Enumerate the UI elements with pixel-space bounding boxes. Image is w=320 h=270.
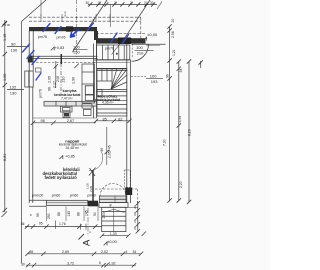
axis dash-dot x76.5 (76, 0, 78, 57)
svg-text:95: 95 (39, 222, 43, 226)
svg-text:20: 20 (133, 205, 137, 209)
flag ±0,00 bottom (104, 242, 107, 245)
south door steps (100, 196, 127, 199)
svg-text:5,59: 5,59 (178, 116, 182, 123)
svg-text:34: 34 (133, 250, 137, 254)
svg-text:20: 20 (133, 226, 137, 230)
dashed overhang near stair (95, 188, 137, 190)
dashed overhang vertical right (140, 17, 142, 38)
svg-text:210: 210 (137, 50, 144, 55)
terrain vertical line (21, 22, 23, 264)
svg-text:30: 30 (21, 262, 25, 266)
left edge lower mark (2, 212, 8, 218)
row B 1,33 (102, 235, 128, 237)
lower wall band (96, 38, 146, 43)
west wall window bay jog (25, 71, 33, 87)
stair top dark edge (97, 68, 127, 70)
kitchen/nappali boundary line (33, 117, 97, 119)
diagonal D2 (73, 0, 108, 52)
exterior stair (95, 184, 138, 232)
short vertical guide x41 (40, 0, 42, 16)
svg-text:±0,00: ±0,00 (147, 32, 158, 37)
svg-text:2,58: 2,58 (171, 31, 175, 38)
svg-text:1,33: 1,33 (110, 232, 117, 236)
upper flight arrow diagonal (112, 39, 125, 55)
svg-text:3,06: 3,06 (5, 23, 11, 27)
east wall niche dashed (124, 170, 130, 187)
south landing (99, 203, 128, 208)
svg-text:250: 250 (73, 50, 80, 55)
svg-text:290: 290 (47, 213, 51, 219)
dashed overhang line row2 (29, 20, 141, 22)
svg-text:2,05: 2,05 (48, 76, 52, 83)
upper flight vertical treads (102, 45, 104, 60)
duct closet (97, 90, 102, 97)
svg-text:6: 6 (99, 261, 101, 265)
west wall outer line (28, 31, 30, 203)
dashed overhang line row3 (96, 33, 146, 35)
cabinet below (63, 112, 70, 118)
svg-text:98: 98 (41, 119, 45, 123)
door mullion (114, 196, 116, 203)
top chain ticks (88, 2, 155, 6)
tall unit column (82, 64, 95, 103)
stair vertical treads upper (101, 69, 103, 82)
chevron on first tread (103, 209, 125, 212)
west wall black segment (28, 56, 33, 63)
svg-text:2,05: 2,05 (89, 186, 93, 192)
stair area (94, 39, 130, 117)
stair treads lower (97, 91, 127, 93)
entry door leaf (132, 43, 149, 45)
svg-text:34,48 m²: 34,48 m² (66, 146, 80, 150)
svg-text:85: 85 (103, 117, 107, 121)
top dimension chain line (88, 4, 157, 6)
blue big arrow (71, 30, 79, 38)
svg-text:30: 30 (86, 1, 90, 5)
svg-text:7,30: 7,30 (163, 139, 167, 146)
svg-text:pm76: pm76 (105, 46, 114, 50)
svg-text:2,05+45: 2,05+45 (108, 145, 112, 158)
bottom wall assembly (29, 196, 128, 207)
interior door dim + arc (89, 127, 109, 171)
stair box (97, 69, 127, 117)
stair winders fan (111, 69, 117, 90)
svg-text:7,47 m²: 7,47 m² (61, 96, 73, 100)
svg-text:pm0,00: pm0,00 (32, 193, 43, 197)
svg-text:2,02: 2,02 (101, 250, 108, 254)
svg-text:pm60: pm60 (52, 193, 61, 197)
svg-text:250: 250 (102, 213, 106, 219)
line C (188, 62, 190, 203)
svg-text:+0,85: +0,85 (65, 154, 75, 158)
flag +0,83 (51, 47, 54, 50)
svg-text:210: 210 (61, 77, 65, 83)
svg-text:2,69: 2,69 (62, 250, 69, 254)
svg-text:2,67: 2,67 (67, 119, 74, 123)
svg-text:1,90: 1,90 (71, 77, 75, 84)
svg-text:1,92: 1,92 (109, 261, 116, 265)
svg-text:130: 130 (10, 91, 17, 96)
svg-text:1,21: 1,21 (172, 49, 176, 56)
kitchen north wall double line (33, 55, 98, 57)
east wall double lines (126, 44, 128, 203)
dishwasher (84, 110, 92, 116)
line B (178, 62, 180, 201)
svg-text:1,76: 1,76 (59, 222, 66, 226)
svg-text:pm76: pm76 (38, 35, 47, 39)
east wall window leader dashed (131, 76, 146, 78)
90/130 dim fraction (7, 46, 29, 48)
kitchen window dashed (36, 62, 95, 64)
svg-text:145: 145 (67, 211, 71, 217)
svg-text:100: 100 (150, 74, 157, 79)
diagonal D3 to wall corner (122, 0, 150, 42)
svg-text:A: A (82, 239, 93, 246)
svg-text:45: 45 (109, 203, 113, 207)
svg-text:90: 90 (93, 212, 97, 216)
level flags (51, 37, 147, 245)
overhang vertical stubs (40, 14, 42, 22)
section line A vertical (87, 208, 89, 236)
window leader verticals under south wall (46, 206, 98, 221)
svg-text:88: 88 (57, 212, 61, 216)
svg-text:130: 130 (11, 47, 18, 52)
left edge top mark (2, 22, 8, 28)
svg-text:30: 30 (150, 1, 154, 5)
bench / sill band (46, 200, 88, 205)
south pier black (88, 201, 98, 207)
svg-text:4: 4 (126, 250, 128, 254)
dim row y122 (33, 122, 96, 124)
west wall inner line (32, 31, 34, 71)
svg-text:8,29: 8,29 (188, 129, 192, 136)
svg-text:1,08: 1,08 (3, 74, 7, 81)
svg-text:82: 82 (118, 117, 122, 121)
svg-text:20: 20 (133, 212, 137, 216)
diagonal D1 top-left (22, 0, 47, 22)
svg-text:88: 88 (77, 212, 81, 216)
row A windows (25, 226, 102, 228)
svg-text:6,61: 6,61 (3, 154, 7, 161)
svg-text:90: 90 (100, 148, 104, 152)
svg-text:1,15: 1,15 (3, 34, 7, 41)
svg-text:+0,83: +0,83 (55, 46, 65, 50)
svg-text:90: 90 (11, 41, 16, 46)
svg-text:193: 193 (151, 79, 158, 84)
svg-text:95: 95 (36, 213, 40, 217)
south door swing dashed arc (100, 184, 126, 197)
flight bottom edge double (94, 59, 130, 61)
bottom dim rows (25, 221, 146, 268)
svg-text:pm76: pm76 (57, 36, 66, 40)
flag +0,85 nappali (59, 156, 62, 159)
kitchen fixtures (36, 64, 97, 118)
svg-text:240: 240 (56, 76, 60, 82)
svg-text:36: 36 (21, 222, 25, 226)
svg-text:20: 20 (171, 19, 175, 23)
svg-text:20: 20 (96, 203, 100, 207)
svg-text:fedett nyílászáró: fedett nyílászáró (45, 175, 78, 180)
svg-text:85: 85 (30, 250, 34, 254)
dark block at east end (118, 38, 131, 45)
section A tick (79, 234, 85, 240)
svg-text:34: 34 (179, 69, 183, 73)
vertical guide x110.5 (110, 5, 112, 28)
stray tick right of stair bottom (142, 232, 147, 237)
slash mark at chain end (157, 2, 162, 10)
south wall left segment (29, 199, 46, 201)
stair landing edge (97, 80, 112, 82)
section line thick crossing wall (92, 170, 94, 206)
blue revision marks (23, 24, 129, 81)
wall step vertical (94, 31, 98, 40)
dashed overhang line row1 (29, 16, 141, 18)
132/130 dim fraction (7, 89, 24, 91)
kitchen counter band (44, 101, 97, 106)
row1 (27, 253, 141, 255)
kitchen opening dim verticals (54, 54, 79, 95)
landing line (146, 43, 166, 45)
svg-text:132: 132 (10, 84, 17, 89)
kitchen east wall double (93, 44, 95, 119)
flag ±0,00 top (143, 37, 146, 40)
svg-text:90: 90 (48, 87, 52, 91)
svg-text:±0,00: ±0,00 (107, 240, 116, 244)
svg-text:pm60: pm60 (87, 193, 96, 197)
step dim tick chain right of exterior stair (136, 201, 140, 234)
svg-text:2,20: 2,20 (179, 181, 183, 188)
right dim lines (167, 24, 203, 204)
stub D (200, 61, 202, 68)
upper flight box (96, 45, 129, 60)
entry door swing arc (132, 44, 149, 61)
svg-text:4,36 m²: 4,36 m² (102, 101, 114, 105)
svg-text:pm60: pm60 (70, 193, 79, 197)
sink (82, 104, 92, 108)
svg-text:3,72: 3,72 (67, 261, 74, 265)
row2 (26, 264, 136, 266)
oven box (85, 86, 93, 95)
lower unit box (85, 95, 93, 100)
top wall pillar (66, 26, 73, 31)
svg-text:100: 100 (136, 45, 143, 50)
svg-text:96: 96 (166, 74, 170, 78)
line A (169, 27, 171, 201)
top wall black band (29, 27, 97, 31)
left dim column (3, 20, 132, 212)
east wall black block (125, 188, 132, 195)
stove (61, 106, 73, 112)
NW niche detail (36, 68, 41, 72)
svg-text:pm76: pm76 (39, 89, 43, 98)
svg-text:20: 20 (133, 219, 137, 223)
